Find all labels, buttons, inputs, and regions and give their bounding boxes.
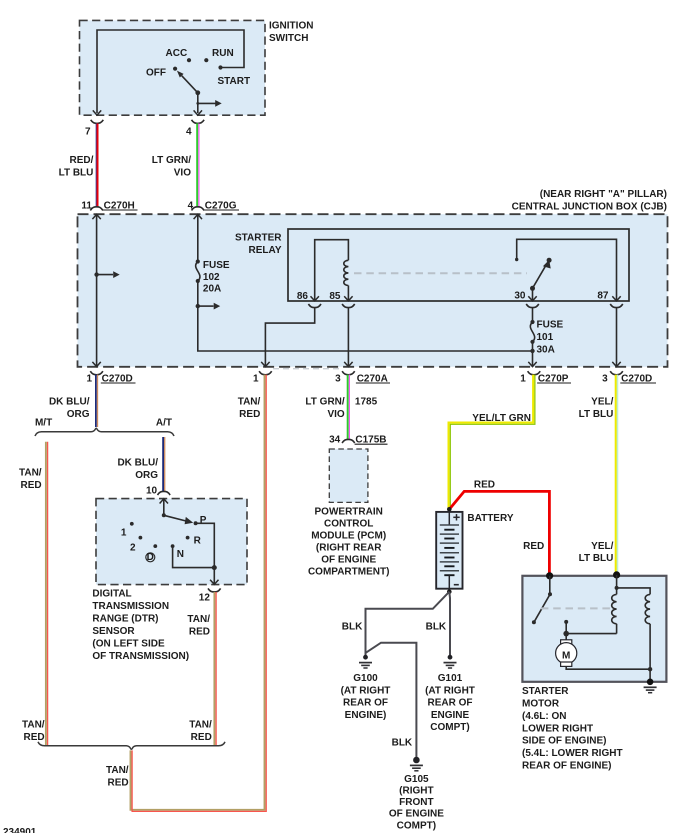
ground G100 bbox=[341, 655, 391, 721]
svg-text:BLK: BLK bbox=[342, 622, 363, 633]
fuse 101 30A bbox=[528, 308, 563, 367]
svg-text:1: 1 bbox=[253, 373, 259, 384]
svg-text:OF TRANSMISSION): OF TRANSMISSION) bbox=[92, 651, 189, 662]
DTR pin10 stub bbox=[160, 499, 168, 518]
svg-text:DIGITAL: DIGITAL bbox=[92, 589, 131, 600]
wire DK BLU/ORG A/T branch bbox=[117, 437, 164, 491]
svg-text:RED: RED bbox=[191, 732, 212, 743]
node RUN bbox=[204, 48, 233, 62]
PCM box bbox=[329, 449, 368, 502]
svg-text:3: 3 bbox=[602, 373, 608, 384]
starter internal dashed link bbox=[541, 607, 611, 609]
svg-text:A/T: A/T bbox=[156, 417, 172, 428]
svg-text:RED: RED bbox=[107, 777, 128, 788]
relay pin 86 cup bbox=[308, 304, 321, 308]
svg-text:R: R bbox=[194, 535, 202, 546]
relay switch 30-87 bbox=[514, 239, 620, 301]
svg-text:COMPT): COMPT) bbox=[430, 722, 469, 733]
svg-text:COMPT): COMPT) bbox=[397, 820, 436, 831]
wire BLK battery to G101 bbox=[426, 592, 450, 657]
svg-text:10: 10 bbox=[146, 485, 158, 496]
wire YEL/LT BLU C270D to starter bbox=[579, 375, 618, 574]
svg-text:YEL/: YEL/ bbox=[591, 541, 613, 552]
svg-text:VIO: VIO bbox=[327, 409, 344, 420]
node OFF bbox=[146, 67, 177, 79]
wire TAN/RED merged to CJB pin1 bbox=[106, 375, 266, 812]
svg-text:34: 34 bbox=[329, 435, 341, 446]
starter solenoid pull-in coil bbox=[566, 575, 618, 634]
svg-text:TAN/: TAN/ bbox=[22, 720, 45, 731]
svg-text:YEL/: YEL/ bbox=[591, 397, 613, 408]
svg-text:STARTER: STARTER bbox=[522, 686, 569, 697]
node START bbox=[218, 65, 251, 87]
DTR sensor box bbox=[96, 499, 247, 585]
relay internal dashed link bbox=[354, 272, 527, 274]
svg-text:(ON LEFT SIDE: (ON LEFT SIDE bbox=[92, 639, 165, 650]
connector pin 4 bbox=[186, 120, 204, 138]
svg-text:OF ENGINE: OF ENGINE bbox=[389, 809, 444, 820]
svg-text:LOWER RIGHT: LOWER RIGHT bbox=[522, 723, 593, 734]
svg-text:RANGE (DTR): RANGE (DTR) bbox=[92, 614, 158, 625]
svg-text:IGNITION: IGNITION bbox=[269, 21, 313, 32]
wire relay 87 to C270D bbox=[612, 308, 620, 367]
svg-text:(4.6L: ON: (4.6L: ON bbox=[522, 711, 566, 722]
svg-text:4: 4 bbox=[186, 127, 192, 138]
svg-text:RED/: RED/ bbox=[69, 155, 93, 166]
svg-text:SWITCH: SWITCH bbox=[269, 33, 308, 44]
svg-text:(AT RIGHT: (AT RIGHT bbox=[341, 685, 391, 696]
wire DK BLU/ORG C270D to split bbox=[49, 375, 98, 427]
svg-text:LT BLU: LT BLU bbox=[59, 167, 94, 178]
svg-text:7: 7 bbox=[85, 127, 91, 138]
svg-text:RED: RED bbox=[23, 732, 44, 743]
DTR contact R bbox=[186, 535, 202, 546]
svg-text:COMPARTMENT): COMPARTMENT) bbox=[308, 567, 389, 578]
svg-text:ENGINE): ENGINE) bbox=[345, 710, 387, 721]
svg-text:3: 3 bbox=[335, 373, 341, 384]
central junction box bbox=[78, 189, 668, 367]
svg-text:N: N bbox=[177, 549, 184, 560]
svg-text:LT GRN/: LT GRN/ bbox=[305, 397, 344, 408]
wire ignition pin7 to START contact bbox=[93, 30, 244, 115]
DTR wire N to junction bbox=[173, 546, 215, 568]
svg-text:101: 101 bbox=[537, 332, 554, 343]
svg-text:234901: 234901 bbox=[3, 827, 37, 833]
wire relay 86 to CJB pin1 bbox=[261, 308, 315, 367]
connector pin 1 tan bbox=[253, 371, 272, 384]
wire BLK battery to G100 bbox=[342, 592, 450, 657]
svg-text:TAN/: TAN/ bbox=[189, 720, 212, 731]
starter motor box bbox=[522, 576, 666, 682]
DTR sensor label bbox=[92, 589, 189, 663]
wire BLK branch to G105 bbox=[366, 643, 417, 758]
svg-text:RUN: RUN bbox=[212, 48, 234, 59]
battery bbox=[436, 512, 514, 590]
svg-text:TAN/: TAN/ bbox=[187, 614, 210, 625]
svg-text:30: 30 bbox=[514, 291, 526, 302]
wire LT GRN/VIO C270A to C175B bbox=[305, 375, 377, 439]
merge brace bbox=[38, 742, 225, 750]
svg-text:TAN/: TAN/ bbox=[19, 468, 42, 479]
DTR contact P bbox=[194, 515, 207, 526]
svg-text:20A: 20A bbox=[203, 283, 221, 294]
connector C175B pin 34 bbox=[329, 435, 387, 446]
svg-text:FUSE: FUSE bbox=[203, 260, 230, 271]
svg-text:STARTER: STARTER bbox=[235, 233, 282, 244]
wire ignition pivot to pin4 bbox=[194, 93, 222, 115]
ignition switch box bbox=[80, 20, 314, 115]
svg-text:TAN/: TAN/ bbox=[238, 397, 261, 408]
svg-text:REAR OF: REAR OF bbox=[428, 698, 473, 709]
svg-text:BLK: BLK bbox=[392, 737, 413, 748]
svg-text:RED: RED bbox=[239, 409, 260, 420]
svg-text:LT BLU: LT BLU bbox=[579, 553, 614, 564]
connector C270D pin 3 right bbox=[602, 371, 656, 384]
svg-text:LT BLU: LT BLU bbox=[579, 409, 614, 420]
svg-text:VIO: VIO bbox=[174, 167, 191, 178]
svg-text:1: 1 bbox=[86, 373, 92, 384]
svg-text:4: 4 bbox=[188, 200, 194, 211]
svg-text:TRANSMISSION: TRANSMISSION bbox=[92, 601, 169, 612]
svg-text:RED: RED bbox=[523, 541, 544, 552]
svg-text:G105: G105 bbox=[404, 774, 429, 785]
svg-text:(RIGHT: (RIGHT bbox=[399, 786, 433, 797]
connector joint dashed bbox=[273, 368, 341, 370]
ground G101 bbox=[425, 655, 475, 733]
svg-text:OFF: OFF bbox=[146, 68, 166, 79]
svg-text:RED: RED bbox=[20, 480, 41, 491]
wire RED/LT BLU ignition to C270H bbox=[59, 123, 98, 206]
svg-text:ENGINE: ENGINE bbox=[431, 710, 470, 721]
svg-text:START: START bbox=[218, 76, 251, 87]
connector DTR pin 10 bbox=[146, 485, 170, 496]
svg-text:12: 12 bbox=[199, 593, 211, 604]
DTR contact D bbox=[146, 544, 157, 563]
node battery positive bbox=[447, 507, 452, 512]
connector C270A pin 3 bbox=[335, 371, 390, 384]
svg-text:P: P bbox=[200, 515, 207, 526]
bottom TAN/RED labels bbox=[22, 720, 212, 743]
svg-text:ACC: ACC bbox=[166, 48, 188, 59]
wire TAN/RED M/T branch bbox=[19, 442, 48, 746]
svg-text:1: 1 bbox=[520, 373, 526, 384]
DTR contact N bbox=[171, 544, 184, 560]
svg-text:G100: G100 bbox=[353, 673, 378, 684]
relay pin 85 cup bbox=[342, 304, 355, 308]
svg-text:(NEAR RIGHT "A" PILLAR): (NEAR RIGHT "A" PILLAR) bbox=[540, 189, 667, 200]
svg-text:G101: G101 bbox=[438, 673, 463, 684]
DTR selector arm bbox=[164, 515, 193, 524]
DTR wire P to junction bbox=[196, 523, 215, 567]
ignition switch arm bbox=[177, 71, 200, 96]
svg-text:87: 87 bbox=[597, 291, 609, 302]
svg-text:SENSOR: SENSOR bbox=[92, 626, 135, 637]
svg-text:SIDE OF ENGINE): SIDE OF ENGINE) bbox=[522, 736, 606, 747]
split brace M/T A/T bbox=[35, 417, 174, 436]
svg-text:86: 86 bbox=[297, 291, 309, 302]
node starter yel entry bbox=[613, 571, 620, 578]
svg-text:11: 11 bbox=[81, 200, 92, 211]
relay pin 87 cup bbox=[610, 304, 623, 308]
svg-text:ORG: ORG bbox=[135, 470, 158, 481]
connector pin 7 bbox=[85, 120, 103, 138]
connector DTR pin 12 bbox=[199, 588, 221, 603]
starter solenoid hold-in coil bbox=[617, 588, 651, 669]
wire CJB pin4 to fuse 102 bbox=[194, 214, 202, 261]
svg-text:2: 2 bbox=[130, 542, 136, 553]
svg-text:MODULE (PCM): MODULE (PCM) bbox=[311, 531, 386, 542]
DTR contact 2 bbox=[130, 536, 142, 554]
connector C270P pin 1 bbox=[520, 371, 571, 384]
DTR junction node bbox=[212, 565, 217, 570]
svg-text:BLK: BLK bbox=[426, 622, 447, 633]
svg-text:RED: RED bbox=[474, 479, 495, 490]
wire motor to ground bbox=[566, 666, 652, 681]
svg-text:REAR OF ENGINE): REAR OF ENGINE) bbox=[522, 761, 611, 772]
starter motor M bbox=[556, 634, 577, 667]
wire RED battery to starter bbox=[449, 479, 549, 574]
svg-text:D: D bbox=[147, 552, 154, 563]
DTR wire junction to pin 12 bbox=[210, 568, 218, 585]
connector C270G pin 4 bbox=[188, 200, 239, 211]
svg-text:BATTERY: BATTERY bbox=[467, 513, 513, 524]
svg-text:RED: RED bbox=[189, 627, 210, 638]
svg-text:(RIGHT REAR: (RIGHT REAR bbox=[316, 543, 382, 554]
svg-text:LT GRN/: LT GRN/ bbox=[152, 155, 191, 166]
ground G105 bbox=[389, 757, 444, 832]
svg-text:FUSE: FUSE bbox=[537, 320, 564, 331]
node starter red entry bbox=[546, 572, 553, 579]
relay pin 30 cup bbox=[526, 304, 539, 308]
starter motor label bbox=[522, 686, 623, 771]
wire fuse102 output with branch arrow bbox=[196, 281, 533, 351]
connector C270H pin 11 bbox=[81, 200, 137, 211]
svg-text:REAR OF: REAR OF bbox=[343, 698, 388, 709]
starter solenoid switch bbox=[532, 576, 569, 637]
wire LT GRN/VIO ignition to C270G bbox=[152, 123, 199, 206]
svg-text:1785: 1785 bbox=[355, 397, 378, 408]
node battery negative bbox=[447, 589, 452, 594]
relay coil pins 86-85 bbox=[297, 240, 353, 302]
node ACC bbox=[166, 48, 192, 62]
svg-text:FRONT: FRONT bbox=[399, 797, 433, 808]
svg-text:85: 85 bbox=[329, 291, 341, 302]
svg-text:DK BLU/: DK BLU/ bbox=[117, 458, 158, 469]
starter ground bbox=[644, 679, 657, 693]
svg-text:M/T: M/T bbox=[35, 417, 52, 428]
svg-text:TAN/: TAN/ bbox=[106, 765, 129, 776]
svg-text:102: 102 bbox=[203, 272, 220, 283]
svg-text:MOTOR: MOTOR bbox=[522, 699, 560, 710]
svg-text:(AT RIGHT: (AT RIGHT bbox=[425, 685, 475, 696]
wire relay 85 to C270A bbox=[344, 308, 352, 367]
svg-text:OF ENGINE: OF ENGINE bbox=[321, 555, 376, 566]
svg-text:POWERTRAIN: POWERTRAIN bbox=[315, 507, 383, 518]
svg-text:30A: 30A bbox=[537, 344, 555, 355]
connector C270D pin 1 left bbox=[86, 371, 135, 384]
svg-text:CONTROL: CONTROL bbox=[324, 519, 373, 530]
svg-text:RELAY: RELAY bbox=[249, 245, 282, 256]
wire TAN/RED DTR pin12 down bbox=[187, 592, 216, 745]
svg-text:1: 1 bbox=[121, 527, 127, 538]
wire YEL/LT GRN C270P to battery bbox=[449, 375, 535, 508]
svg-text:ORG: ORG bbox=[67, 409, 90, 420]
svg-text:M: M bbox=[562, 650, 570, 661]
svg-text:(5.4L: LOWER RIGHT: (5.4L: LOWER RIGHT bbox=[522, 748, 623, 759]
DTR contact 1 bbox=[121, 522, 134, 538]
PCM label bbox=[308, 507, 389, 578]
starter relay box bbox=[235, 229, 629, 301]
svg-text:YEL/LT GRN: YEL/LT GRN bbox=[472, 413, 531, 424]
svg-text:DK BLU/: DK BLU/ bbox=[49, 397, 90, 408]
wire CJB pin11 to pin1 left vertical bbox=[92, 214, 119, 366]
svg-text:CENTRAL JUNCTION BOX (CJB): CENTRAL JUNCTION BOX (CJB) bbox=[512, 201, 667, 212]
fuse 102 20A bbox=[196, 259, 230, 294]
